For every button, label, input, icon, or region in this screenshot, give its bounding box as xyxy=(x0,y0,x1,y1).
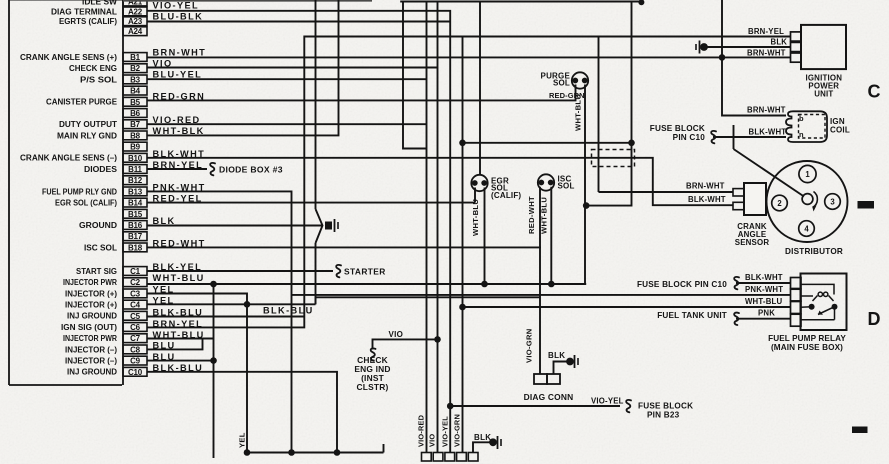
svg-text:BLK-BLU: BLK-BLU xyxy=(263,306,314,316)
svg-text:PIN B23: PIN B23 xyxy=(647,411,680,420)
svg-text:BRN-WHT: BRN-WHT xyxy=(686,182,725,191)
svg-text:A22: A22 xyxy=(128,7,143,16)
svg-text:UNIT: UNIT xyxy=(814,90,833,99)
svg-text:DIAG TERMINAL: DIAG TERMINAL xyxy=(51,7,117,16)
svg-text:RED-GRN: RED-GRN xyxy=(549,91,585,100)
svg-text:VIO-YEL: VIO-YEL xyxy=(591,397,624,406)
svg-text:WHT-BLU: WHT-BLU xyxy=(153,273,205,283)
svg-text:(MAIN FUSE BOX): (MAIN FUSE BOX) xyxy=(771,343,843,352)
svg-text:B14: B14 xyxy=(128,199,143,208)
svg-text:2: 2 xyxy=(777,199,782,208)
svg-text:B16: B16 xyxy=(128,221,143,230)
svg-text:INJECTOR (–): INJECTOR (–) xyxy=(65,357,117,366)
svg-text:n: n xyxy=(799,130,804,139)
svg-text:INJECTOR (+): INJECTOR (+) xyxy=(65,289,117,298)
svg-text:BLK: BLK xyxy=(548,351,565,360)
svg-text:C7: C7 xyxy=(130,334,141,343)
svg-text:INJ GROUND: INJ GROUND xyxy=(67,312,117,321)
svg-text:FUSE BLOCK: FUSE BLOCK xyxy=(650,124,705,133)
svg-text:VIO: VIO xyxy=(389,330,404,339)
svg-text:C5: C5 xyxy=(130,312,141,321)
svg-text:CANISTER PURGE: CANISTER PURGE xyxy=(46,98,118,107)
svg-text:YEL: YEL xyxy=(238,432,247,448)
svg-text:START SIG: START SIG xyxy=(76,267,117,276)
svg-text:WHT-BLU: WHT-BLU xyxy=(540,197,549,234)
svg-text:SOL: SOL xyxy=(558,182,575,191)
svg-text:B2: B2 xyxy=(130,64,141,73)
svg-text:MAIN RLY GND: MAIN RLY GND xyxy=(57,131,117,140)
svg-text:BRN-WHT: BRN-WHT xyxy=(747,48,786,57)
svg-text:VIO-YEL: VIO-YEL xyxy=(440,416,449,447)
svg-text:B6: B6 xyxy=(130,109,141,118)
svg-text:C9: C9 xyxy=(130,357,141,366)
svg-text:INJECTOR (–): INJECTOR (–) xyxy=(65,345,117,354)
svg-text:FUSE BLOCK: FUSE BLOCK xyxy=(638,401,693,410)
svg-text:B10: B10 xyxy=(128,154,143,163)
svg-text:PIN C10: PIN C10 xyxy=(673,133,706,142)
svg-text:BRN-WHT: BRN-WHT xyxy=(153,48,207,58)
svg-text:B15: B15 xyxy=(128,210,143,219)
svg-text:A24: A24 xyxy=(128,27,143,36)
svg-text:BLU-BLK: BLU-BLK xyxy=(153,12,204,22)
svg-text:1: 1 xyxy=(805,170,810,179)
svg-text:DIODES: DIODES xyxy=(84,165,118,174)
svg-text:C1: C1 xyxy=(130,267,141,276)
svg-text:B4: B4 xyxy=(130,87,141,96)
svg-text:BLK-WHT: BLK-WHT xyxy=(688,195,726,204)
svg-text:FUEL TANK UNIT: FUEL TANK UNIT xyxy=(657,311,727,320)
svg-text:DIODE BOX #3: DIODE BOX #3 xyxy=(219,165,283,175)
svg-text:C10: C10 xyxy=(128,368,143,377)
svg-text:B18: B18 xyxy=(128,243,143,252)
svg-text:BLU-YEL: BLU-YEL xyxy=(153,69,203,79)
svg-text:BLK-WHT: BLK-WHT xyxy=(749,127,787,136)
svg-text:VIO: VIO xyxy=(428,434,437,447)
svg-text:SENSOR: SENSOR xyxy=(735,238,770,247)
svg-text:3: 3 xyxy=(830,198,835,207)
svg-text:PNK-WHT: PNK-WHT xyxy=(745,285,783,294)
svg-text:B11: B11 xyxy=(128,165,142,174)
svg-text:P/S SOL: P/S SOL xyxy=(80,75,117,84)
svg-text:VIO-RED: VIO-RED xyxy=(417,414,426,447)
svg-text:DUTY OUTPUT: DUTY OUTPUT xyxy=(59,120,117,129)
svg-text:WHT-BLU: WHT-BLU xyxy=(471,199,480,236)
svg-text:b: b xyxy=(799,114,804,123)
svg-text:INJECTOR (+): INJECTOR (+) xyxy=(65,301,117,310)
svg-text:DISTRIBUTOR: DISTRIBUTOR xyxy=(785,247,843,256)
svg-text:CRANK ANGLE SENS (+): CRANK ANGLE SENS (+) xyxy=(20,53,117,62)
svg-text:STARTER: STARTER xyxy=(344,267,386,277)
svg-text:C2: C2 xyxy=(130,278,141,287)
svg-text:B5: B5 xyxy=(130,98,141,107)
svg-text:EGRTS (CALIF): EGRTS (CALIF) xyxy=(59,17,117,26)
svg-text:IDLE SW: IDLE SW xyxy=(82,0,117,6)
svg-text:B13: B13 xyxy=(128,187,143,196)
svg-text:A23: A23 xyxy=(128,17,143,26)
svg-text:(CALIF): (CALIF) xyxy=(491,191,521,200)
svg-text:INJECTOR PWR: INJECTOR PWR xyxy=(63,334,117,343)
svg-text:CRANK ANGLE SENS (–): CRANK ANGLE SENS (–) xyxy=(20,154,117,163)
svg-text:BRN-WHT: BRN-WHT xyxy=(747,105,786,114)
svg-text:VIO-GRN: VIO-GRN xyxy=(453,414,462,447)
svg-text:CLSTR): CLSTR) xyxy=(357,382,389,392)
svg-text:C8: C8 xyxy=(130,345,141,354)
svg-text:RED-WHT: RED-WHT xyxy=(527,196,536,234)
svg-text:BRN-YEL: BRN-YEL xyxy=(748,27,784,36)
svg-text:BLK: BLK xyxy=(153,216,176,226)
svg-text:B17: B17 xyxy=(128,232,143,241)
svg-text:SOL: SOL xyxy=(553,79,570,88)
svg-text:B12: B12 xyxy=(128,176,143,185)
svg-text:WHT-BLU: WHT-BLU xyxy=(745,297,783,306)
svg-text:D: D xyxy=(868,309,881,329)
svg-text:EGR SOL (CALIF): EGR SOL (CALIF) xyxy=(55,199,117,208)
svg-text:BLK-WHT: BLK-WHT xyxy=(745,273,783,282)
svg-text:INJECTOR PWR: INJECTOR PWR xyxy=(63,278,117,287)
svg-text:FUEL PUMP RELAY: FUEL PUMP RELAY xyxy=(768,334,846,343)
svg-text:C3: C3 xyxy=(130,289,141,298)
svg-text:C6: C6 xyxy=(130,323,141,332)
svg-text:ISC SOL: ISC SOL xyxy=(84,243,117,252)
svg-text:DIAG CONN: DIAG CONN xyxy=(524,392,574,402)
svg-text:VIO-GRN: VIO-GRN xyxy=(525,328,534,363)
svg-text:FUSE BLOCK PIN C10: FUSE BLOCK PIN C10 xyxy=(637,280,727,289)
svg-text:FUEL PUMP RLY GND: FUEL PUMP RLY GND xyxy=(42,187,117,196)
svg-text:B9: B9 xyxy=(130,143,141,152)
svg-text:IGN SIG (OUT): IGN SIG (OUT) xyxy=(61,323,117,332)
svg-text:GROUND: GROUND xyxy=(79,221,117,230)
svg-text:B3: B3 xyxy=(130,75,141,84)
svg-text:BLK: BLK xyxy=(474,433,491,442)
svg-text:CHECK ENG: CHECK ENG xyxy=(69,64,117,73)
svg-text:B1: B1 xyxy=(130,53,141,62)
svg-text:4: 4 xyxy=(804,225,809,234)
svg-text:PNK: PNK xyxy=(758,309,775,318)
svg-text:B8: B8 xyxy=(130,131,141,140)
svg-text:VIO-YEL: VIO-YEL xyxy=(153,0,200,10)
svg-text:B7: B7 xyxy=(130,120,141,129)
svg-text:BLK: BLK xyxy=(771,37,788,46)
svg-text:COIL: COIL xyxy=(830,126,850,135)
svg-text:C4: C4 xyxy=(130,301,141,310)
svg-text:C: C xyxy=(868,82,881,102)
svg-text:INJ GROUND: INJ GROUND xyxy=(67,368,117,377)
